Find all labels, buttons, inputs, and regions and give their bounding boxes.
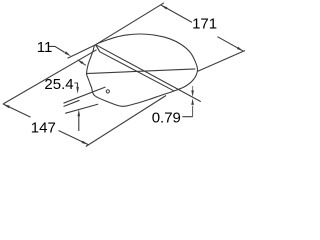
svg-text:25.4: 25.4 — [44, 76, 73, 93]
svg-text:171: 171 — [192, 16, 217, 33]
svg-text:147: 147 — [31, 120, 56, 137]
svg-text:0.79: 0.79 — [152, 110, 181, 127]
svg-text:11: 11 — [37, 39, 53, 56]
